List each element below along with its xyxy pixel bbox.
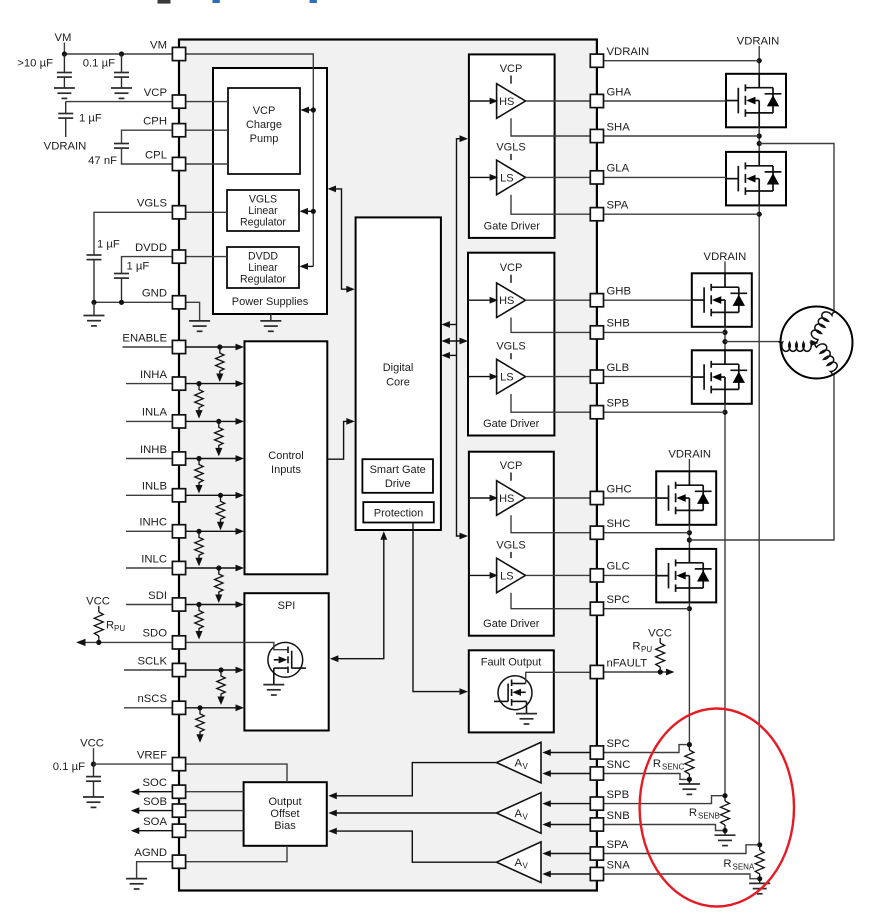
- svg-text:SENB: SENB: [698, 812, 720, 821]
- ground (RSENA): [749, 883, 770, 893]
- buffer HS (gate driver C): [497, 481, 526, 516]
- svg-text:Gate Driver: Gate Driver: [483, 618, 540, 630]
- wire SPB external: [604, 411, 725, 413]
- resistor pulldown INHC: [195, 531, 203, 566]
- svg-text:VCC: VCC: [80, 738, 104, 750]
- wire SOC: [131, 788, 244, 795]
- svg-text:INLA: INLA: [142, 407, 168, 419]
- svg-text:V: V: [523, 862, 529, 871]
- wire SPA sense: [604, 845, 757, 854]
- wire HS input: [469, 98, 498, 105]
- block DVDD Linear Regulator: [227, 247, 299, 288]
- node VCC (nFAULT): [648, 628, 672, 644]
- wire phase C to motor: [689, 374, 834, 540]
- svg-text:DVDD: DVDD: [248, 251, 278, 263]
- pin VDRAIN: [590, 46, 649, 67]
- pin INLA: [142, 407, 186, 428]
- net VDRAIN (top): [737, 36, 780, 74]
- wire bus to digital core (upper): [441, 321, 456, 328]
- svg-text:R: R: [653, 758, 661, 770]
- wire SPA to amp A: [542, 850, 590, 857]
- svg-text:SNB: SNB: [607, 810, 630, 822]
- svg-text:Gate Driver: Gate Driver: [483, 418, 540, 430]
- svg-text:ENABLE: ENABLE: [122, 332, 167, 344]
- svg-text:INLC: INLC: [141, 553, 167, 565]
- resistor pulldown INLB: [216, 495, 224, 530]
- cropped heading descenders: [158, 0, 171, 4]
- wire HS input: [468, 297, 498, 304]
- svg-text:Output: Output: [268, 796, 301, 808]
- block Protection: [363, 502, 434, 522]
- ground (power supplies): [260, 314, 281, 331]
- wire SNA to amp A: [542, 871, 590, 878]
- wire SCLK: [124, 667, 244, 674]
- svg-text:Offset: Offset: [270, 808, 299, 820]
- net VCP (gate driver A): [500, 63, 523, 84]
- svg-text:Digital: Digital: [383, 362, 414, 374]
- svg-text:SPC: SPC: [607, 594, 630, 606]
- pin SCLK: [137, 655, 185, 676]
- pin SOA: [143, 816, 185, 837]
- svg-text:SOB: SOB: [143, 796, 167, 808]
- svg-text:Control: Control: [268, 450, 303, 462]
- svg-text:INHA: INHA: [140, 369, 167, 381]
- wire LS input: [468, 373, 498, 380]
- svg-text:SPI: SPI: [278, 600, 296, 612]
- net VDRAIN (phase B): [704, 251, 747, 273]
- wire phase A node: [757, 127, 762, 152]
- svg-text:VGLS: VGLS: [496, 539, 525, 551]
- svg-text:LS: LS: [500, 172, 513, 184]
- svg-text:VGLS: VGLS: [249, 194, 277, 206]
- node VCC (SDO pull-up): [86, 596, 110, 613]
- svg-text:47 nF: 47 nF: [88, 155, 117, 167]
- wire phase B to motor: [725, 341, 781, 343]
- resistor pulldown INHA: [195, 384, 203, 419]
- svg-text:V: V: [523, 762, 529, 771]
- pin INHA: [140, 369, 186, 390]
- pin GLB: [590, 362, 629, 383]
- ground (RSENB): [715, 835, 736, 845]
- wire SPB: [511, 394, 590, 412]
- wire GND pin to ground: [186, 302, 210, 331]
- svg-text:HS: HS: [499, 96, 514, 108]
- svg-text:Protection: Protection: [374, 508, 424, 520]
- block Power Supplies outer: [213, 68, 327, 314]
- svg-text:HS: HS: [499, 493, 514, 505]
- svg-text:VGLS: VGLS: [496, 341, 525, 353]
- svg-text:VM: VM: [150, 39, 167, 51]
- svg-text:A: A: [515, 857, 523, 869]
- svg-text:Power Supplies: Power Supplies: [232, 296, 309, 308]
- wire nFAULT external: [604, 669, 675, 676]
- wire GHC output: [526, 497, 591, 499]
- svg-text:1 µF: 1 µF: [79, 113, 102, 125]
- svg-text:GLA: GLA: [607, 163, 630, 175]
- pin SPB (sense): [590, 789, 629, 810]
- pin SPC (sense): [590, 738, 629, 759]
- svg-text:VDRAIN: VDRAIN: [607, 46, 650, 58]
- block VGLS Linear Regulator: [227, 190, 299, 231]
- wire HS input: [469, 495, 498, 502]
- wire SNC sense: [604, 774, 687, 780]
- svg-text:R: R: [632, 641, 640, 653]
- wire GHB output: [526, 299, 591, 301]
- svg-text:DVDD: DVDD: [135, 242, 167, 254]
- wire SHB: [511, 318, 590, 333]
- svg-text:Pump: Pump: [250, 133, 279, 145]
- svg-text:VDRAIN: VDRAIN: [668, 449, 711, 461]
- wire DVDD pin to regulator: [186, 256, 227, 258]
- svg-text:SENA: SENA: [733, 863, 755, 872]
- pin SNA: [590, 859, 630, 880]
- wire SPC sense: [604, 745, 687, 753]
- pin INLC: [141, 553, 185, 574]
- wire bus to digital core (lower): [441, 352, 456, 359]
- svg-text:SCLK: SCLK: [137, 655, 167, 667]
- wire VCP pin to charge pump: [186, 101, 228, 103]
- svg-text:GLC: GLC: [607, 561, 630, 573]
- capacitor >10uF: [17, 54, 72, 88]
- pin GND: [142, 288, 186, 309]
- ground: [83, 797, 104, 807]
- svg-text:SPA: SPA: [607, 200, 629, 212]
- svg-text:CPL: CPL: [145, 149, 167, 161]
- pin CPL: [145, 149, 186, 170]
- wire INLC: [126, 565, 244, 572]
- svg-text:GHB: GHB: [607, 286, 631, 298]
- buffer HS (gate driver B): [497, 283, 526, 318]
- pin INLB: [142, 481, 186, 502]
- transistor SPI SDO open-drain: [186, 642, 306, 684]
- svg-text:VCP: VCP: [500, 63, 523, 75]
- resistor pulldown SCLK: [217, 670, 225, 705]
- pin SDO: [143, 628, 186, 649]
- wire SPB to amp B: [542, 800, 590, 807]
- svg-text:PU: PU: [641, 645, 652, 654]
- resistor RPU (SDO): [94, 612, 125, 642]
- wire INLA: [126, 418, 244, 425]
- pin AGND: [134, 847, 185, 868]
- wire VM external: [62, 51, 173, 56]
- wire AGND: [137, 846, 287, 879]
- svg-text:nSCS: nSCS: [137, 693, 167, 705]
- transistor Q6 (phase C low-side): [656, 549, 716, 603]
- svg-text:HS: HS: [499, 295, 514, 307]
- svg-text:1 µF: 1 µF: [127, 261, 150, 273]
- pin SHC: [590, 518, 630, 539]
- buffer LS (gate driver C): [497, 558, 526, 593]
- wire SOA: [131, 827, 244, 834]
- resistor pulldown INLA: [215, 421, 223, 456]
- wire SPA: [511, 195, 590, 215]
- resistor pulldown INLC: [215, 568, 223, 603]
- wire CPL pin to charge pump: [186, 163, 228, 165]
- net VDRAIN (phase C): [668, 449, 711, 472]
- svg-text:Charge: Charge: [246, 119, 282, 131]
- wire SNA sense: [604, 874, 757, 879]
- net VCP (gate driver C): [500, 460, 523, 481]
- svg-text:VCC: VCC: [648, 628, 672, 640]
- pin SOC: [143, 777, 186, 798]
- pin nSCS: [137, 693, 185, 714]
- wire INHC: [126, 528, 244, 535]
- block Fault Output: [469, 650, 554, 732]
- buffer LS (gate driver B): [497, 359, 526, 394]
- resistor pulldown INHB: [195, 459, 203, 494]
- wire INLB: [126, 492, 244, 499]
- pin DVDD: [135, 242, 186, 263]
- svg-text:VCC: VCC: [86, 596, 110, 608]
- svg-text:INHC: INHC: [139, 517, 167, 529]
- svg-text:Bias: Bias: [274, 820, 296, 832]
- wire SOB: [131, 807, 244, 814]
- wire VDRAIN pin: [604, 60, 759, 62]
- node VCC (VREF): [80, 738, 104, 765]
- wire VREF: [94, 764, 288, 782]
- pin VGLS: [137, 198, 186, 219]
- block Control Inputs: [245, 341, 328, 574]
- svg-text:GND: GND: [142, 288, 167, 300]
- block VCP Charge Pump: [228, 88, 300, 174]
- wire phase B node: [722, 327, 727, 351]
- wire control inputs to digital core: [327, 418, 355, 459]
- svg-text:Gate Driver: Gate Driver: [484, 220, 541, 232]
- motor M1: [779, 307, 853, 379]
- wire SPA external: [604, 213, 759, 215]
- wire GHA output: [526, 100, 591, 102]
- svg-text:A: A: [515, 808, 523, 820]
- resistor RPU (nFAULT): [632, 641, 664, 673]
- wire LS input: [469, 572, 498, 579]
- block Digital Core: [356, 217, 441, 530]
- resistor RSENC: [653, 742, 694, 784]
- wire LS input: [469, 174, 498, 181]
- wire SNB to amp B: [542, 821, 590, 828]
- svg-text:AGND: AGND: [134, 847, 167, 859]
- wire INHA: [126, 380, 244, 387]
- wire VGLS pin to regulator: [186, 211, 227, 213]
- resistor RSENB: [689, 793, 730, 835]
- svg-text:Regulator: Regulator: [240, 274, 286, 286]
- wire amp A output: [328, 828, 496, 863]
- gate driver B block: [468, 253, 554, 436]
- buffer LS (gate driver A): [497, 160, 526, 195]
- svg-text:SNC: SNC: [607, 759, 631, 771]
- svg-text:SNA: SNA: [607, 859, 631, 871]
- wire ENABLE: [123, 344, 245, 351]
- svg-text:SPA: SPA: [607, 839, 629, 851]
- svg-text:GHC: GHC: [607, 483, 632, 495]
- buffer HS (gate driver A): [497, 84, 526, 119]
- block Output Offset Bias: [244, 782, 327, 846]
- svg-text:VCP: VCP: [144, 87, 167, 99]
- pin SDI: [148, 590, 185, 611]
- capacitor 1uF (DVDD): [114, 257, 173, 303]
- wire GND external: [91, 300, 172, 316]
- transistor fault output open-drain: [494, 676, 532, 714]
- transistor Q1 (phase A high-side): [726, 74, 786, 128]
- wire power supplies to digital core: [328, 186, 355, 293]
- svg-text:Fault Output: Fault Output: [481, 656, 542, 668]
- transistor Q4 (phase B low-side): [692, 350, 752, 404]
- svg-text:SPB: SPB: [607, 398, 630, 410]
- wire protection to fault output: [413, 523, 468, 696]
- op-amp AV (C): [497, 742, 542, 783]
- wire SPC node to RSENC: [687, 602, 692, 744]
- pin SNB: [590, 810, 629, 831]
- pin GHB: [590, 286, 631, 307]
- svg-text:Core: Core: [386, 377, 410, 389]
- svg-text:GLB: GLB: [607, 362, 630, 374]
- pin INHC: [139, 517, 185, 538]
- svg-text:VM: VM: [55, 32, 72, 44]
- svg-text:VGLS: VGLS: [137, 198, 168, 210]
- capacitor 0.1uF: [83, 54, 129, 88]
- capacitor 1uF (VGLS): [87, 212, 173, 302]
- wire nFAULT internal: [526, 672, 590, 683]
- svg-text:VDRAIN: VDRAIN: [737, 36, 780, 48]
- svg-text:SPC: SPC: [607, 738, 630, 750]
- resistor pulldown ENABLE: [216, 347, 224, 382]
- svg-text:INLB: INLB: [142, 481, 167, 493]
- pin SHB: [590, 318, 629, 339]
- wire SPC external: [604, 608, 690, 610]
- svg-text:1 µF: 1 µF: [97, 239, 120, 251]
- wire SPB node to RSENB: [722, 404, 727, 796]
- node VM: [55, 32, 72, 54]
- wire GHC external: [604, 497, 656, 499]
- ground: [54, 88, 75, 98]
- IC body: [179, 40, 597, 891]
- op-amp AV (B): [497, 793, 542, 834]
- wire SHA: [511, 118, 590, 136]
- svg-text:VCP: VCP: [253, 105, 276, 117]
- svg-text:Linear: Linear: [248, 262, 278, 274]
- wire gate drive bus: [457, 135, 469, 539]
- ground: [84, 316, 105, 326]
- transistor Q5 (phase C high-side): [656, 471, 716, 525]
- net VGLS (gate driver C): [496, 539, 525, 558]
- wire SDO external: [76, 639, 173, 646]
- wire GLA output: [526, 176, 591, 178]
- wire GLC external: [604, 574, 656, 576]
- wire SPC: [511, 593, 590, 609]
- wire GHA external: [604, 100, 726, 102]
- block Smart Gate Drive: [362, 459, 433, 493]
- wire SPB sense: [604, 796, 723, 804]
- wire amp B output: [328, 810, 496, 817]
- wire SNC to amp C: [542, 770, 590, 777]
- ground (RSENC): [679, 784, 700, 794]
- svg-text:SHB: SHB: [607, 318, 630, 330]
- svg-text:R: R: [106, 620, 114, 632]
- wire SNB sense: [604, 825, 723, 831]
- ground (AGND): [126, 879, 147, 889]
- wire SHC: [511, 515, 590, 532]
- pin VM: [150, 39, 186, 60]
- svg-text:VREF: VREF: [137, 749, 167, 761]
- svg-text:SENC: SENC: [662, 763, 684, 772]
- wire VM internal rail: [186, 54, 316, 270]
- svg-text:CPH: CPH: [143, 116, 167, 128]
- svg-text:Smart Gate: Smart Gate: [370, 464, 426, 476]
- wire SHA external: [604, 135, 759, 137]
- svg-text:INHB: INHB: [140, 444, 167, 456]
- svg-text:R: R: [689, 807, 697, 819]
- ground (SPI fet): [263, 685, 284, 695]
- pin VREF: [137, 749, 186, 770]
- svg-text:GHA: GHA: [607, 86, 632, 98]
- svg-text:0.1 µF: 0.1 µF: [53, 761, 85, 773]
- svg-text:R: R: [723, 858, 731, 870]
- svg-text:SOC: SOC: [143, 777, 167, 789]
- wire SPC to amp C: [542, 749, 590, 756]
- pin SNC: [590, 759, 630, 780]
- transistor Q2 (phase A low-side): [726, 152, 786, 206]
- wire GLB output: [526, 376, 591, 378]
- gate driver A block: [469, 54, 555, 238]
- resistor RSENA: [723, 842, 764, 883]
- wire GLB external: [604, 376, 692, 378]
- net VGLS (gate driver B): [496, 341, 525, 360]
- svg-text:Linear: Linear: [248, 205, 278, 217]
- ground: [111, 88, 132, 98]
- pin GLA: [590, 163, 629, 184]
- svg-text:Inputs: Inputs: [271, 464, 301, 476]
- capacitor 47nF (CPH-CPL): [88, 130, 173, 167]
- svg-text:nFAULT: nFAULT: [607, 657, 648, 669]
- svg-text:0.1 µF: 0.1 µF: [83, 58, 115, 70]
- op-amp AV (A): [497, 842, 542, 883]
- svg-text:VDRAIN: VDRAIN: [44, 141, 87, 153]
- capacitor 1uF (VCP): [58, 102, 173, 137]
- svg-text:SDO: SDO: [143, 628, 168, 640]
- wire digital core to gate driver B (bidirectional): [441, 338, 468, 345]
- pin VCP: [144, 87, 186, 108]
- wire SDI: [126, 601, 244, 608]
- svg-text:PU: PU: [114, 624, 125, 633]
- net VCP (gate driver B): [500, 262, 523, 283]
- pin GHA: [590, 86, 631, 107]
- svg-text:A: A: [515, 758, 523, 770]
- svg-text:SDI: SDI: [148, 590, 167, 602]
- pin nFAULT: [590, 657, 647, 678]
- wire phase C node: [687, 525, 692, 549]
- svg-text:SHA: SHA: [607, 121, 631, 133]
- svg-text:VGLS: VGLS: [496, 141, 525, 153]
- svg-text:VCP: VCP: [500, 460, 523, 472]
- wire GLA external: [604, 176, 726, 178]
- svg-text:V: V: [523, 812, 529, 821]
- pin GLC: [590, 561, 629, 582]
- wire nSCS: [124, 704, 244, 711]
- resistor pulldown nSCS: [196, 708, 204, 743]
- wire CPH pin to charge pump: [186, 129, 228, 131]
- pin INHB: [140, 444, 186, 465]
- gate driver C block: [469, 452, 554, 636]
- wire GHB external: [604, 299, 692, 301]
- transistor Q3 (phase B high-side): [692, 273, 752, 327]
- svg-text:VCP: VCP: [500, 262, 523, 274]
- svg-text:Drive: Drive: [385, 478, 411, 490]
- capacitor 0.1uF (VREF): [53, 761, 101, 797]
- svg-text:SOA: SOA: [143, 816, 167, 828]
- pin SPA (sense): [590, 839, 628, 860]
- wire digital core to SPI: [330, 531, 387, 662]
- pin SPA: [590, 200, 628, 221]
- pin SHA: [590, 121, 630, 142]
